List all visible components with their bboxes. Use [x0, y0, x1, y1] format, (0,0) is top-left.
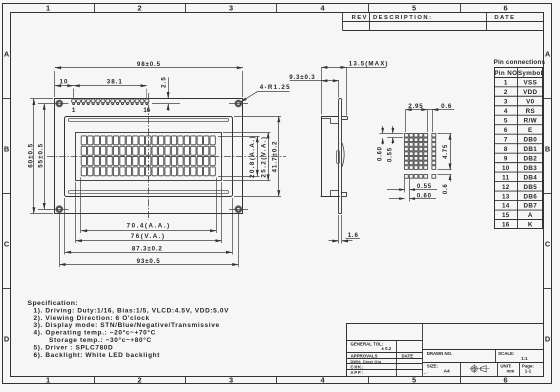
svg-text:APP:: APP: — [351, 370, 364, 375]
svg-text:B: B — [4, 144, 9, 153]
svg-text:1.6: 1.6 — [348, 232, 359, 239]
svg-text:15: 15 — [502, 212, 510, 219]
scale cell — [495, 349, 497, 362]
svg-text:9: 9 — [504, 155, 508, 162]
svg-text:16: 16 — [502, 222, 510, 229]
svg-text:6: 6 — [503, 4, 507, 13]
svg-text:DRAWN NO.: DRAWN NO. — [427, 351, 453, 356]
dimension 10 (pin offset) — [55, 85, 74, 87]
drawn no. cell — [422, 349, 543, 351]
svg-text:DATE: DATE — [494, 15, 515, 21]
svg-text:DB4: DB4 — [523, 174, 537, 181]
svg-text:1:1: 1:1 — [521, 356, 528, 361]
svg-text:2.95: 2.95 — [408, 103, 423, 110]
svg-text:2: 2 — [137, 4, 141, 13]
pin connections table rows 1-16 — [494, 86, 543, 88]
svg-text:Pin NO: Pin NO — [494, 70, 517, 77]
pin connections table header row — [494, 77, 543, 79]
side view bezel top edge — [321, 116, 338, 118]
dimension 93+-0.5 (hole spacing horizontal) — [59, 264, 238, 266]
svg-text:6: 6 — [504, 127, 508, 134]
svg-text:SIZE:: SIZE: — [427, 364, 439, 369]
svg-text:2.5: 2.5 — [161, 76, 168, 88]
front view PCB outline — [55, 99, 243, 214]
display viewing area window — [76, 133, 222, 181]
svg-text:CHK:: CHK: — [351, 364, 365, 369]
svg-text:1). Driving: Duty:1/16, Bias:1: 1). Driving: Duty:1/16, Bias:1/5, VLCD:4… — [34, 307, 230, 314]
svg-text:41.7±0.2: 41.7±0.2 — [272, 140, 279, 172]
dimension 0.6 character gap — [432, 110, 434, 132]
svg-text:76(V.A.): 76(V.A.) — [131, 233, 166, 240]
svg-text:5). Driver : SPLC780D: 5). Driver : SPLC780D — [34, 345, 114, 352]
svg-text:mm: mm — [507, 369, 515, 374]
svg-text:DB7: DB7 — [523, 203, 537, 210]
dimension 2.5 (pin row to pcb edge) — [168, 78, 170, 99]
svg-text:1: 1 — [72, 107, 76, 114]
dimension 55+-0.5 (hole spacing vertical) — [44, 104, 46, 210]
svg-text:11: 11 — [502, 174, 510, 181]
side view back protrusion top — [342, 116, 347, 118]
svg-text:10: 10 — [502, 165, 510, 172]
svg-text:7: 7 — [504, 136, 508, 143]
svg-text:70.4(A.A.): 70.4(A.A.) — [127, 223, 171, 230]
side view backlight lens bulge — [342, 143, 344, 167]
unit cell — [497, 363, 499, 377]
mounting holes (4) — [57, 101, 62, 106]
svg-text:93±0.5: 93±0.5 — [137, 258, 161, 265]
svg-text:SCALE:: SCALE: — [498, 351, 515, 356]
dot matrix main grid 5x8 — [404, 133, 408, 137]
svg-text:0.60: 0.60 — [378, 146, 384, 161]
svg-text:4-R1.25: 4-R1.25 — [260, 84, 291, 91]
svg-text:4.75: 4.75 — [443, 144, 449, 159]
size row — [422, 362, 543, 364]
svg-text:V0: V0 — [526, 98, 535, 105]
svg-text:3). Display mode: STN/Blue/Neg: 3). Display mode: STN/Blue/Negative/Tran… — [34, 322, 220, 329]
svg-text:A: A — [528, 212, 533, 219]
svg-text:C: C — [4, 239, 10, 248]
hole center lines — [38, 103, 69, 105]
dimension 87.3+-0.2 (bezel width) — [65, 252, 232, 254]
svg-text:1: 1 — [46, 376, 50, 385]
svg-text:9.3±0.3: 9.3±0.3 — [289, 74, 315, 81]
front view horizontal centerline — [47, 156, 286, 158]
svg-text:8: 8 — [504, 146, 508, 153]
zone tick marks bottom — [94, 376, 96, 384]
svg-text:VDD: VDD — [523, 89, 537, 96]
svg-text:Pin connections: Pin connections — [494, 59, 546, 66]
svg-text:2: 2 — [504, 89, 508, 96]
side view back protrusion bottom — [342, 192, 347, 194]
dimension 0.55 dot size (left) — [392, 126, 394, 133]
svg-text:DB5: DB5 — [523, 184, 537, 191]
dimension 0.60 dot pitch (left) — [382, 126, 384, 133]
dimension 0.6 row gap (right) — [438, 174, 452, 176]
zone tick marks left — [3, 98, 11, 100]
svg-text:DB3: DB3 — [523, 165, 537, 172]
side view lens stadium — [337, 151, 340, 164]
svg-text:DB6: DB6 — [523, 193, 537, 200]
svg-text:14: 14 — [502, 203, 510, 210]
svg-text:0.6: 0.6 — [443, 183, 449, 194]
pin header pads row (16 pins) — [72, 99, 76, 103]
dimension 38.1 (pin row span) — [74, 85, 147, 87]
svg-text:A: A — [4, 49, 10, 58]
dimension 9.3+-0.3 — [290, 80, 339, 82]
svg-text:4: 4 — [504, 108, 508, 115]
dot matrix adjacent row below — [404, 175, 408, 179]
page cell — [519, 363, 521, 377]
svg-text:VSS: VSS — [523, 80, 537, 87]
svg-text:3: 3 — [229, 4, 233, 13]
svg-text:1-1: 1-1 — [525, 369, 532, 374]
svg-text:K: K — [528, 222, 533, 229]
svg-text:5: 5 — [504, 117, 508, 124]
svg-text:60±0.5: 60±0.5 — [27, 143, 34, 168]
svg-text:1: 1 — [504, 80, 508, 87]
dimension 4.75 column height — [450, 134, 452, 170]
svg-text:87.3±0.2: 87.3±0.2 — [132, 246, 163, 253]
svg-text:98±0.5: 98±0.5 — [137, 61, 161, 68]
side view bezel front face — [321, 116, 323, 196]
svg-text:DESCRIPTION:: DESCRIPTION: — [373, 15, 433, 21]
svg-text:DB0: DB0 — [523, 136, 537, 143]
side view bezel bottom step — [331, 190, 339, 192]
title block left rows — [347, 340, 423, 342]
svg-text:12: 12 — [502, 184, 510, 191]
svg-text:Specification:: Specification: — [28, 300, 78, 307]
svg-text:DATE: DATE — [402, 353, 414, 358]
side view PCB (1.6 thick) — [338, 100, 340, 213]
character cell grid 21x4 — [81, 136, 86, 145]
svg-text:E: E — [528, 127, 533, 134]
svg-text:A4: A4 — [444, 369, 450, 375]
dimension 2.95 character width — [405, 109, 454, 111]
svg-text:0.6: 0.6 — [441, 103, 452, 110]
svg-text:13.5(MAX): 13.5(MAX) — [349, 61, 389, 68]
svg-text:3: 3 — [229, 376, 233, 385]
dimension 60+-0.5 (pcb height) — [33, 99, 35, 214]
revision table — [342, 12, 344, 31]
dimension 13.5(MAX) overall depth — [321, 67, 386, 69]
svg-text:20.8(A.A.): 20.8(A.A.) — [249, 135, 256, 178]
svg-text:16: 16 — [143, 107, 150, 114]
svg-text:5: 5 — [412, 4, 416, 13]
dimension 70.4(A.A.) — [81, 230, 216, 232]
svg-text:55±0.5: 55±0.5 — [38, 143, 45, 168]
dimension 0.55 dot size (bottom) — [404, 179, 406, 193]
zone tick marks right — [544, 98, 552, 100]
svg-text:REV: REV — [352, 15, 368, 21]
title block frame — [347, 324, 544, 377]
side view pin rounded top — [339, 98, 342, 100]
svg-text:0.55: 0.55 — [417, 184, 432, 190]
svg-text:B: B — [545, 144, 550, 153]
LCD bezel frame — [65, 117, 233, 197]
dot matrix adjacent column — [432, 133, 436, 137]
svg-text:2: 2 — [137, 376, 141, 385]
svg-text:D: D — [545, 334, 551, 343]
svg-text:3: 3 — [504, 98, 508, 105]
dimension 20.8(A.A.) — [257, 136, 259, 176]
dimension 98+-0.5 — [55, 67, 243, 69]
svg-text:1: 1 — [46, 4, 50, 13]
dimension 25.2(V.A.) — [268, 132, 270, 180]
bezel top slot bar — [69, 119, 229, 122]
svg-text:C: C — [545, 239, 551, 248]
svg-text:4). Operating temp.: −20°c~+70: 4). Operating temp.: −20°c~+70°C — [34, 329, 156, 337]
svg-text:DB1: DB1 — [523, 146, 537, 153]
svg-text:2). Viewing Direction: 6 O'clo: 2). Viewing Direction: 6 O'clock — [34, 315, 150, 322]
svg-text:Storage temp.: −30°c~+80°C: Storage temp.: −30°c~+80°C — [49, 336, 152, 344]
dimension 41.7+-0.2 (bezel height) — [278, 116, 280, 196]
svg-text:0.55: 0.55 — [388, 147, 394, 162]
bezel bottom slot bar — [69, 191, 229, 194]
dimension 76(V.A.) — [76, 240, 222, 242]
svg-text:DWN: Qiqei Qiu: DWN: Qiqei Qiu — [351, 360, 382, 364]
svg-text:D: D — [4, 334, 10, 343]
svg-text:Symbol: Symbol — [518, 70, 543, 77]
svg-text:DB2: DB2 — [523, 155, 537, 162]
svg-text:10: 10 — [60, 79, 69, 86]
svg-text:6). Backlight: White LED backl: 6). Backlight: White LED backlight — [34, 352, 161, 359]
svg-text:A: A — [545, 49, 551, 58]
dimension 1.6 PCB thickness — [338, 215, 340, 244]
svg-text:38.1: 38.1 — [107, 79, 123, 86]
svg-text:± 0.2: ± 0.2 — [382, 346, 392, 351]
svg-text:GENERAL TOL:: GENERAL TOL: — [351, 342, 384, 347]
side view bezel top step — [321, 118, 331, 120]
side view bezel bottom edge — [321, 196, 340, 198]
svg-text:25.2(V.A.): 25.2(V.A.) — [261, 135, 268, 177]
svg-text:- ·: - · — [424, 370, 428, 375]
third angle projection symbol — [470, 368, 490, 370]
pin connections table frame — [495, 68, 543, 229]
svg-text:0.60: 0.60 — [417, 193, 432, 199]
svg-text:R/W: R/W — [524, 117, 537, 124]
zone tick marks top — [94, 4, 96, 12]
svg-text:RS: RS — [526, 108, 535, 115]
dimension 0.60 dot pitch (bottom) — [389, 198, 405, 200]
svg-text:APPROVALS: APPROVALS — [351, 353, 378, 358]
front view vertical centerline — [148, 93, 150, 220]
svg-text:13: 13 — [502, 193, 510, 200]
